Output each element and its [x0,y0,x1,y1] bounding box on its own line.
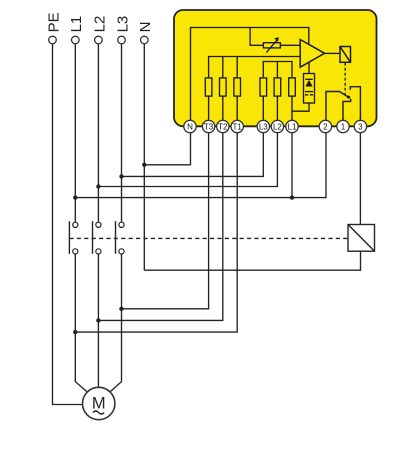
potentiometer RV1 [263,43,280,48]
wire L3 vertical lower to motor [110,254,122,392]
wire coil return N to K1 [144,251,360,270]
motor M1 [83,387,115,419]
svg-text:3: 3 [358,122,363,131]
node L3 junction [119,174,123,178]
wire N loop inside module [191,28,309,121]
wire L1 vertical lower to motor [75,254,87,392]
wire terminal 3 to coil K1 [359,133,361,225]
svg-text:2: 2 [323,122,328,131]
wire L1 resistor to terminal [291,96,293,120]
svg-text:L1: L1 [288,122,297,131]
contactor K1 pole 3 bar [115,221,117,254]
terminal L2 [271,120,283,132]
wire L1 to terminal L1 and terminal 2 [75,133,326,198]
terminal T2 [217,120,229,132]
potentiometer arrow [266,40,277,53]
wire op-amp bottom to rectifier [308,62,310,73]
rectifier box [304,74,315,104]
rectifier diode bar [305,78,312,80]
supply terminal L3 [118,36,126,44]
wire T3 resistor to terminal [208,96,210,120]
relay module box (yellow) [174,10,377,126]
op-amp U1 [300,40,324,68]
wire N vertical [143,44,145,270]
contactor K1 pole 1 contacts [73,222,78,227]
wire L-bus [263,62,292,78]
wire T2 drop [222,57,224,78]
supply terminal N [141,36,149,44]
relay linkage dashed [344,63,346,95]
wire rectifier to L1 [292,103,309,111]
supply terminal L2 [95,36,103,44]
svg-text:1: 1 [341,122,346,131]
contactor coil K1 [348,225,375,252]
wire L3 vertical upper [121,44,123,222]
node L1 lower junction [73,330,77,334]
wire PE vertical [53,44,83,405]
wire L1 vertical upper [74,44,76,222]
resistor R-T1 [234,78,241,96]
rectifier DC symbol [305,91,313,93]
svg-text:L2: L2 [91,16,108,33]
node L1 terminal junction [290,195,294,199]
wire L3 to terminal L3 [122,133,264,176]
wire N to terminal N [144,133,190,165]
terminal N [184,120,367,132]
contact fixed terminal 1 [343,99,351,121]
supply terminal PE [49,36,57,44]
wire L3 resistor to terminal [262,96,264,120]
contactor K1 pole 2 contacts [96,222,101,227]
node N junction [142,163,146,167]
svg-text:L3: L3 [114,16,131,33]
resistor R-L3 [260,78,267,96]
wire contactor L2 to terminal T2 [98,133,222,320]
terminal 2 [319,120,331,132]
wire L2 resistor to terminal [276,96,278,120]
svg-text:T1: T1 [233,122,243,131]
wire T2 resistor to terminal [222,96,224,120]
resistor R-T3 [205,78,212,96]
node L2 lower junction [96,318,100,322]
resistor R-T2 [220,78,227,96]
node L2 junction [96,184,100,188]
terminal T1 [231,120,243,132]
wire op-amp output [325,52,340,54]
svg-text:N: N [187,122,193,131]
resistor R-L1 [289,78,296,96]
svg-text:L3: L3 [259,122,268,131]
node L1 junction [73,195,77,199]
resistor R-L2 [274,78,281,96]
contact arm from terminal 2 [326,92,350,121]
contactor linkage dashed [69,237,348,239]
contact fixed terminal 3 [350,87,360,121]
contactor K1 pole 3 contacts [119,222,124,227]
terminal 1 [337,120,349,132]
wire pot branch [250,28,263,46]
svg-text:T2: T2 [218,122,228,131]
wire T1 resistor to terminal [236,96,238,120]
supply terminal L1 [72,36,80,44]
wire L2 vertical upper [97,44,99,222]
rectifier diode triangle [305,80,312,87]
svg-text:M: M [92,395,106,413]
terminal T3 [202,120,214,132]
wire L2 to terminal L2 [98,133,277,187]
contactor K1 pole 1 bar [68,221,70,254]
node L3 lower junction [119,307,123,311]
wire L1 terminal riser [291,133,293,198]
svg-text:T3: T3 [204,122,214,131]
svg-text:N: N [137,22,154,33]
terminal L1 [286,120,298,132]
terminal L3 [257,120,269,132]
svg-text:L2: L2 [273,122,282,131]
wire L2 vertical lower to motor [97,254,99,387]
relay coil K2 [340,47,351,63]
terminal 3 [354,120,366,132]
wire contactor L3 to terminal T3 [122,133,209,309]
svg-text:PE: PE [45,12,62,32]
wire T1 drop [236,57,238,78]
svg-text:L1: L1 [68,16,85,33]
wire pot to op-amp [280,44,300,46]
contactor K1 pole 2 bar [92,221,94,254]
wire contactor L1 to terminal T1 [75,133,237,332]
wire L2 drop [276,62,278,78]
wire T-bus to op-amp input [209,57,301,78]
